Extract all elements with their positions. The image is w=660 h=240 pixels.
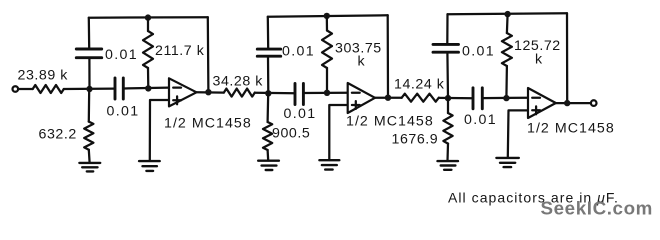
wire cap C4 to op-amp 2 minus input: [304, 92, 348, 94]
wire node A3 down to R8: [447, 98, 449, 113]
top feedback wire T2: [268, 15, 388, 16]
ground G6: [496, 158, 518, 167]
wire U1 output to stage 2: [197, 91, 224, 94]
resistor 34.28 k: [224, 89, 255, 97]
node C3 junction: [564, 100, 570, 106]
node T3 junction: [504, 11, 510, 17]
node T1 junction: [145, 14, 151, 20]
wire top T1 down to output node C1: [207, 17, 210, 92]
U1 plus sign: [173, 96, 181, 104]
wire T3 down to R9: [506, 14, 509, 33]
svg-text:1676.9: 1676.9: [392, 132, 439, 148]
wire R1 to node A through to cap C2: [64, 87, 114, 90]
wire U2 output to stage 3: [375, 97, 402, 99]
wire top T3 down to output node C3: [566, 13, 568, 103]
wire R8 to ground: [446, 144, 449, 161]
wire R6 down to node B2: [326, 68, 328, 93]
node B3 junction: [503, 95, 509, 101]
wire cap C1 to top wire T1: [88, 18, 91, 49]
svg-text:900.5: 900.5: [272, 126, 310, 142]
node C2 junction: [385, 95, 391, 101]
resistor 1676.9: [443, 113, 452, 144]
svg-text:0.01: 0.01: [105, 47, 138, 63]
top feedback wire T3: [448, 12, 568, 15]
wire op-amp plus input to ground column: [150, 100, 169, 161]
ground G3: [258, 161, 279, 170]
node A3 junction: [445, 95, 451, 101]
capacitor 0.01 (stage 2 series, horizontal): [295, 84, 303, 105]
wire U3 output to output terminal: [556, 102, 591, 104]
wire node A up to cap C1: [88, 58, 90, 89]
ground G1: [79, 163, 100, 172]
ground G4: [319, 160, 339, 169]
wire R4 to node A2 through to cap C4: [255, 92, 295, 95]
node A2 junction: [265, 90, 271, 96]
top feedback wire T1: [89, 16, 208, 19]
resistor 23.89 k: [33, 85, 64, 93]
resistor 900.5: [263, 122, 272, 150]
svg-text:k: k: [535, 52, 543, 68]
node B junction: [145, 85, 151, 91]
input terminal: [13, 86, 19, 92]
wire R3 down to node B: [147, 68, 150, 89]
resistor 14.24 k: [402, 94, 439, 102]
U2 plus sign: [352, 101, 360, 109]
svg-text:1/2 MC1458: 1/2 MC1458: [164, 116, 252, 132]
U1 minus sign: [173, 86, 181, 88]
wire R5 to ground: [266, 150, 269, 161]
resistor 211.7 k: [143, 31, 153, 68]
ground G2: [139, 161, 160, 171]
U2 minus sign: [352, 92, 360, 94]
capacitor 0.01 (stage 3 input shunt, vertical): [433, 44, 459, 52]
wire cap C3 to top wire T2: [267, 17, 270, 49]
wire T1 down to R3: [147, 18, 149, 31]
node T2 junction: [324, 13, 330, 19]
svg-text:0.01: 0.01: [464, 112, 497, 128]
output terminal: [591, 100, 597, 106]
ground G5: [438, 161, 459, 170]
svg-text:632.2: 632.2: [39, 127, 77, 143]
capacitor 0.01 (stage 3 series, horizontal): [473, 88, 482, 109]
svg-text:k: k: [358, 54, 366, 70]
resistor 125.72 k: [502, 33, 512, 66]
wire op-amp 3 plus input to ground column: [508, 110, 528, 157]
wire cap C6 to op-amp 3 minus input: [483, 97, 528, 100]
svg-text:14.24 k: 14.24 k: [394, 77, 445, 93]
op-amp U3 1/2 MC1458: [528, 88, 556, 118]
U3 plus sign: [532, 106, 540, 114]
svg-text:0.01: 0.01: [107, 104, 140, 120]
svg-text:211.7 k: 211.7 k: [155, 43, 205, 59]
svg-text:34.28 k: 34.28 k: [213, 74, 264, 90]
svg-text:SeekIC.com: SeekIC.com: [541, 198, 653, 219]
capacitor 0.01 (stage 2 input shunt, vertical): [257, 49, 280, 56]
node A junction: [86, 86, 92, 92]
svg-text:0.01: 0.01: [462, 44, 495, 60]
node B2 junction: [324, 90, 330, 96]
node C1 junction: [205, 89, 211, 95]
capacitor 0.01 (stage 1 series, horizontal): [115, 78, 123, 99]
op-amp U1 1/2 MC1458: [169, 78, 197, 106]
resistor 632.2: [84, 122, 93, 150]
wire R9 down to node B3: [505, 66, 508, 98]
U3 minus sign: [532, 97, 540, 99]
svg-text:0.01: 0.01: [284, 106, 317, 122]
wire node A3 up to cap C5: [446, 53, 449, 99]
wire cap C2 to op-amp minus input: [124, 86, 169, 89]
wire R7 to node A3 through to cap C6: [439, 97, 473, 100]
wire node A2 down to R5: [266, 93, 269, 122]
svg-text:23.89 k: 23.89 k: [18, 67, 69, 83]
resistor 303.75 k: [322, 31, 332, 69]
svg-text:0.01: 0.01: [282, 44, 315, 60]
wire op-amp 2 plus input to ground column: [329, 105, 347, 160]
svg-text:1/2 MC1458: 1/2 MC1458: [527, 121, 615, 137]
wire R2 to ground: [88, 150, 91, 163]
wire node A2 up to cap C3: [267, 57, 270, 94]
op-amp U2 1/2 MC1458: [348, 83, 375, 113]
capacitor 0.01 (stage 1 input shunt, vertical): [76, 49, 101, 58]
wire top T2 down to output node C2: [387, 15, 390, 97]
wire T2 down to R6: [326, 16, 328, 31]
svg-text:1/2 MC1458: 1/2 MC1458: [346, 114, 434, 130]
wire input to R1: [18, 88, 32, 90]
wire node A down to R2: [88, 89, 91, 122]
wire cap C5 to top wire T3: [446, 14, 448, 44]
